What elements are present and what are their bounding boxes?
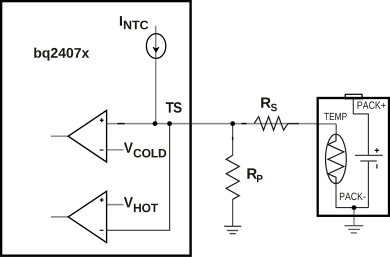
label RS main — [261, 98, 271, 108]
thermistor in pack — [326, 134, 347, 183]
wire: comparator U2 output stub — [51, 216, 69, 218]
op-amp U2 (VHOT comparator) — [68, 191, 106, 242]
wire: main TS net horizontal — [107, 123, 319, 125]
node: TS at INTC junction — [153, 121, 158, 126]
op-amp U1 (VCOLD comparator) — [68, 110, 106, 162]
pin dash on TS wire left of RS — [241, 123, 246, 125]
label RP main — [247, 168, 257, 178]
current source INTC — [146, 34, 165, 59]
wire: RP to ground — [232, 199, 234, 226]
IC box bq2407x — [1, 1, 191, 256]
node: PACK- junction — [352, 205, 357, 210]
label INTC sub — [124, 21, 148, 30]
battery pack tab (PACK+ terminal) — [345, 94, 362, 99]
label bq2407x — [34, 48, 89, 61]
label TEMP — [324, 113, 347, 120]
label VCOLD sub — [134, 149, 167, 158]
wire: battery negative to PACK- node — [367, 162, 369, 208]
label RP sub — [257, 175, 263, 182]
node: TS at comparator branch — [167, 121, 172, 126]
label VHOT main — [124, 197, 133, 207]
battery pack box — [318, 98, 389, 216]
label INTC main — [120, 16, 122, 26]
label TS — [166, 102, 182, 113]
wire: comparator U1 output stub — [51, 135, 69, 137]
wire: TS node down to RP — [232, 124, 234, 156]
battery cell in pack — [355, 148, 383, 168]
wire: pack PACK- node to ground — [353, 208, 355, 226]
label PACK- — [340, 193, 366, 201]
pin dash on RP top lead — [232, 137, 234, 140]
ground: below RP — [224, 226, 241, 233]
wire: thermistor lead and PACK- horizontal — [336, 184, 368, 208]
wire: INTC net vertical — [155, 26, 157, 124]
wire: TS node to U2 inverting input (L shape) — [107, 124, 170, 231]
wire: VCOLD stub to U1 inverting input — [107, 149, 124, 151]
label RS sub — [271, 104, 277, 112]
wire: PACK+ terminal to battery positive — [353, 99, 368, 155]
node: RP junction — [230, 121, 235, 126]
label PACK+ — [358, 101, 386, 109]
pin dash on TS wire at U1 input — [117, 123, 124, 125]
wire: VHOT stub to U2 non-inverting input — [107, 204, 124, 206]
resistor RS — [254, 117, 288, 131]
label VCOLD main — [124, 143, 133, 153]
resistor RP — [226, 155, 239, 199]
ground: below pack — [345, 226, 364, 233]
label VHOT sub — [134, 204, 158, 213]
dark lead right of RS — [288, 123, 299, 125]
wire: TEMP into pack to thermistor — [316, 123, 336, 125]
